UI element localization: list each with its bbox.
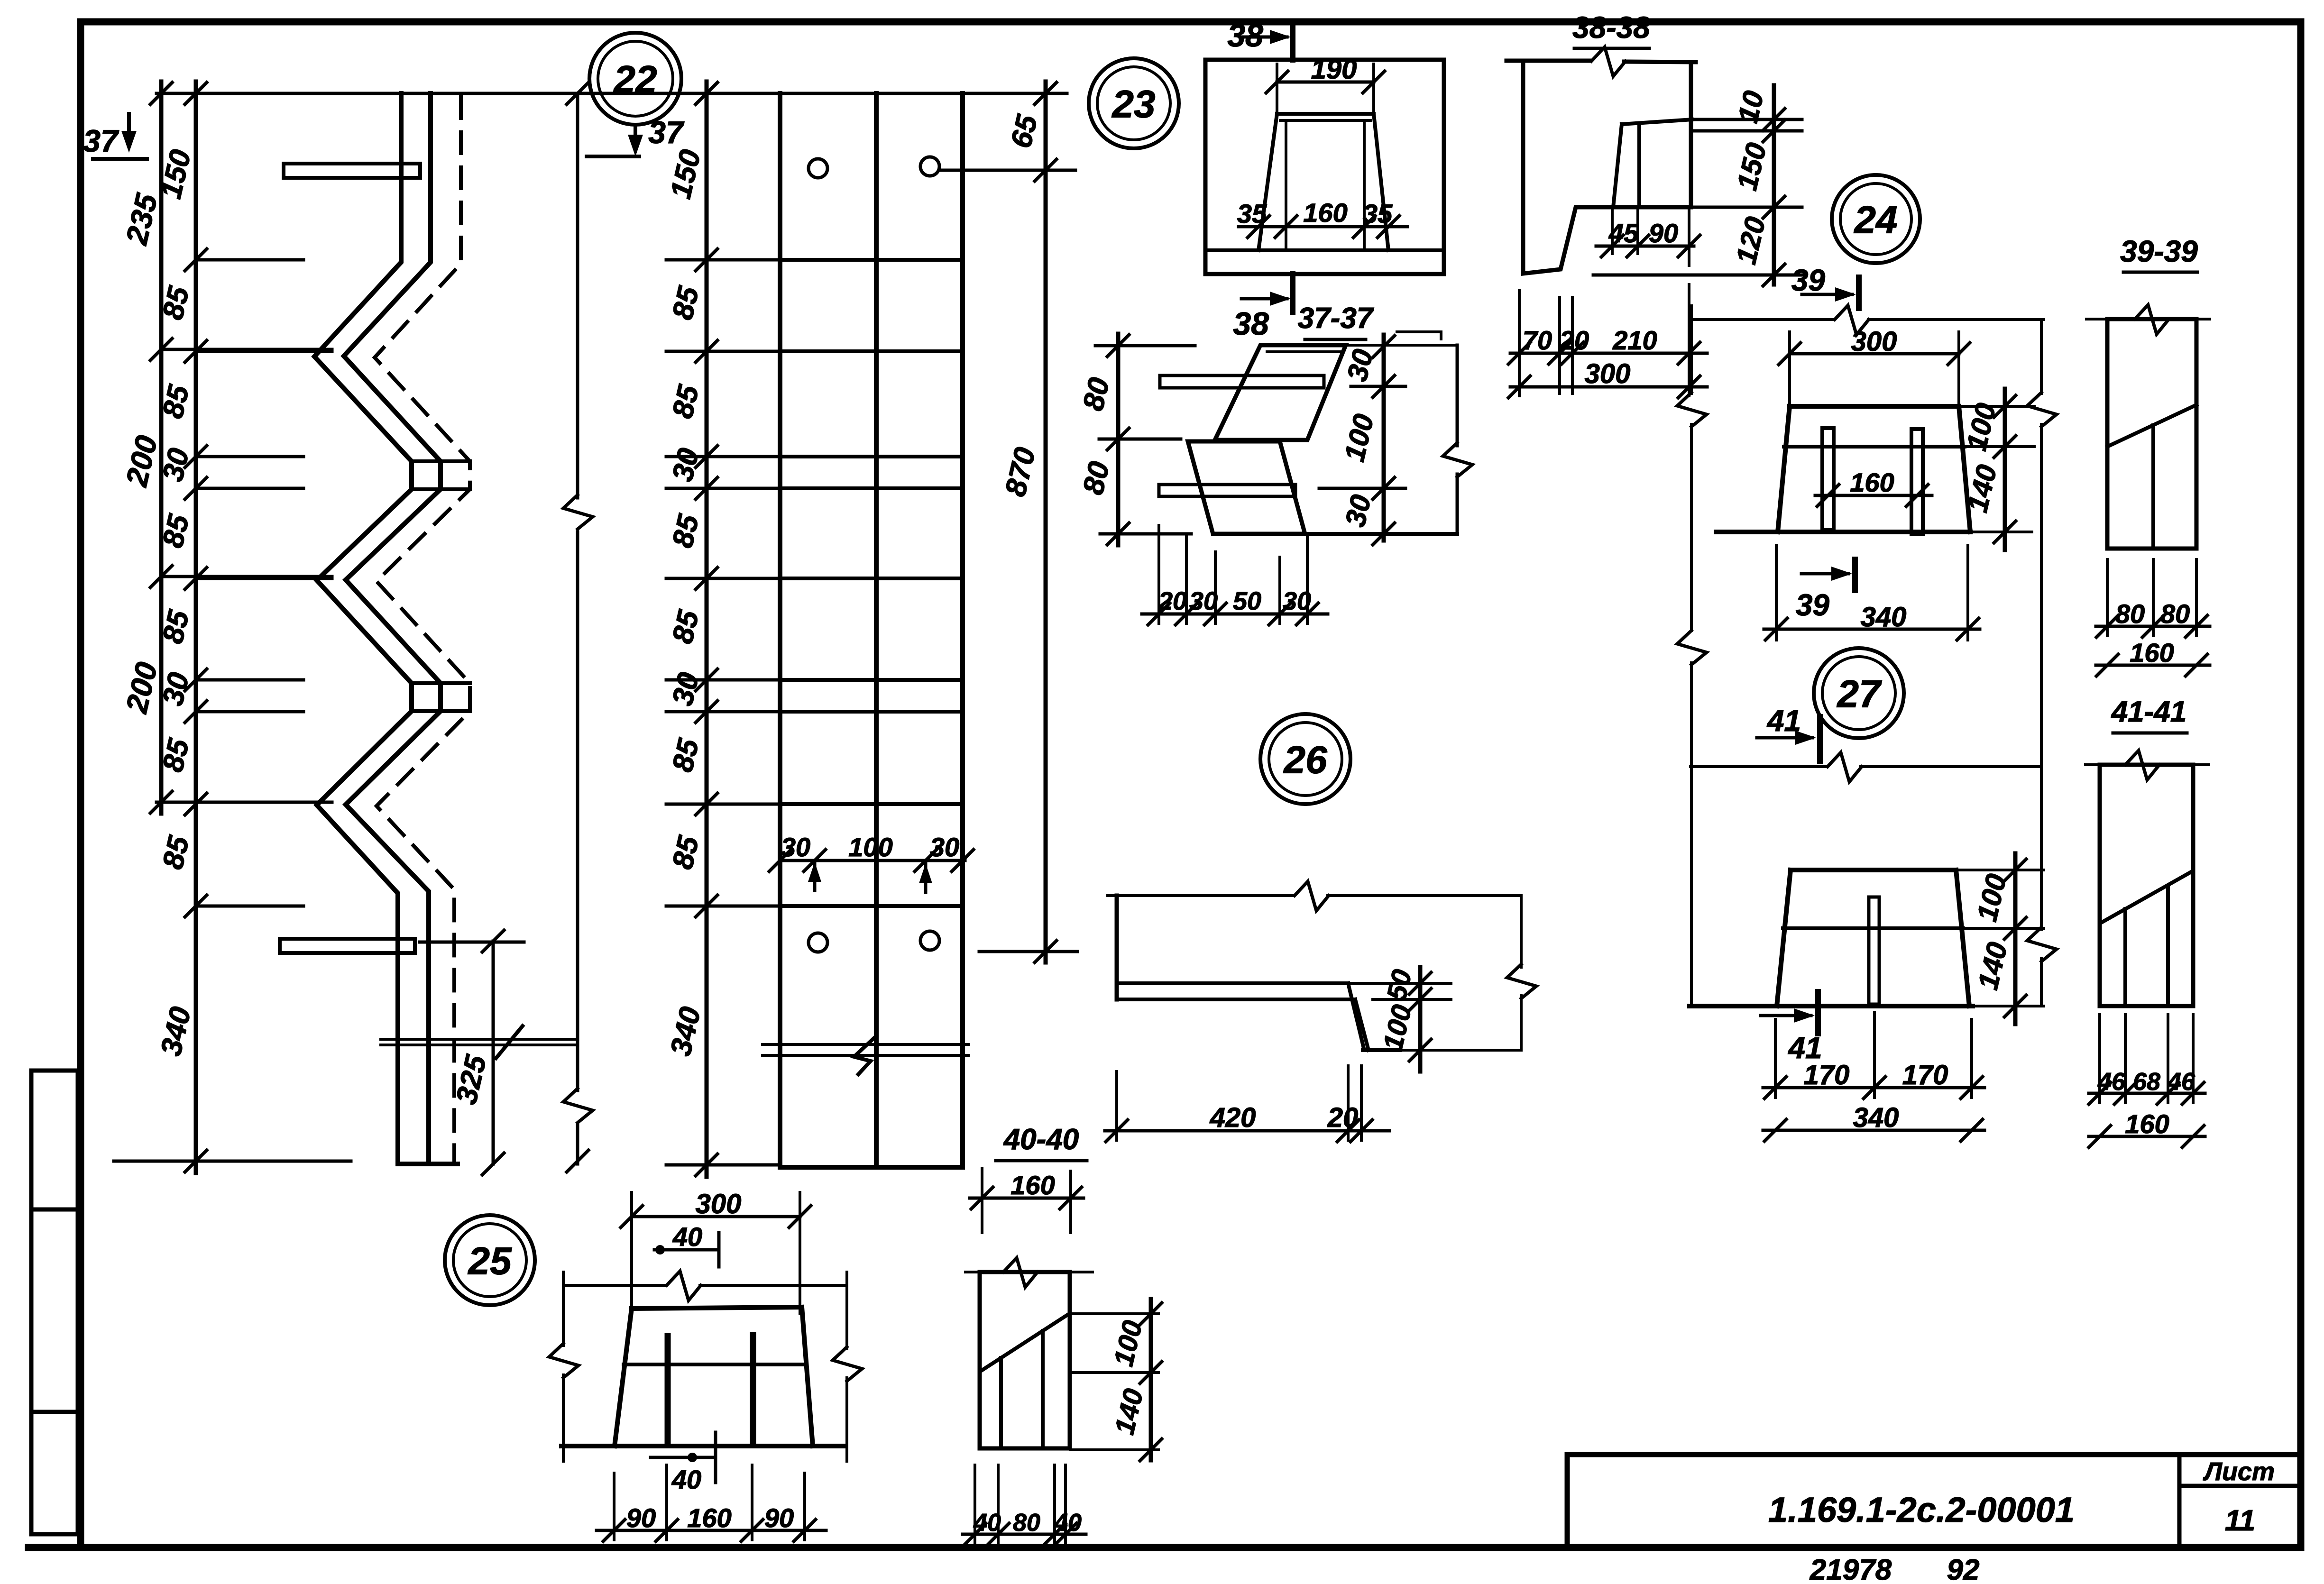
section cut mark 38 top xyxy=(1290,24,1295,60)
reference circle 22 xyxy=(589,33,681,125)
svg-text:35: 35 xyxy=(1363,199,1393,229)
svg-text:68: 68 xyxy=(2133,1068,2160,1096)
svg-text:92: 92 xyxy=(1947,1554,1980,1584)
svg-text:25: 25 xyxy=(467,1240,512,1283)
svg-text:90: 90 xyxy=(764,1503,794,1533)
lower holes in plank element xyxy=(808,933,827,952)
section 41-41 diagonal line xyxy=(2102,872,2191,922)
section 38-38 inner rib lines xyxy=(1613,124,1622,207)
reference circle 27 xyxy=(1814,648,1904,738)
svg-text:340: 340 xyxy=(1861,602,1907,632)
svg-text:11: 11 xyxy=(2225,1504,2255,1537)
detail 24 right chain 100 140 xyxy=(2003,389,2007,550)
detail 25 trapezoid outline xyxy=(632,1307,802,1309)
svg-text:22: 22 xyxy=(613,58,657,101)
svg-text:20: 20 xyxy=(1158,587,1187,615)
reference circle 24 xyxy=(1832,175,1920,263)
detail 26 top extension line with break xyxy=(1108,894,1294,897)
lower rung bar of element 1 xyxy=(280,939,415,953)
detail 24 inner line xyxy=(1784,445,1965,449)
svg-text:23: 23 xyxy=(1111,83,1155,126)
svg-text:38-38: 38-38 xyxy=(1572,10,1650,45)
detail 26 left edge xyxy=(1115,896,1119,999)
detail 27 trapezoid outline xyxy=(1791,868,1956,872)
section 37-37 upper step plate xyxy=(1215,345,1346,440)
svg-text:37-37: 37-37 xyxy=(1298,302,1374,335)
section 41-41 outline xyxy=(2100,765,2193,1006)
section 40-40 bottom chain 40 80 40 xyxy=(963,1533,1086,1536)
svg-text:40: 40 xyxy=(973,1509,1001,1537)
dimension chain B of bent element 150 85 85 30 85 85 30 85 85 340 xyxy=(194,82,198,1173)
detail 27 dimension 340 xyxy=(1763,1129,1984,1132)
detail 24 left extension line with breaks xyxy=(1690,306,1693,394)
svg-text:170: 170 xyxy=(1804,1060,1850,1090)
dimension 35 160 35 of detail 23 xyxy=(1239,225,1407,229)
svg-text:160: 160 xyxy=(2130,638,2174,668)
section 40-40 right chain 100 140 xyxy=(1149,1299,1153,1460)
dimension chain D 65 and 870 xyxy=(1044,82,1048,962)
dimension chain C of plank element 150 85 85 30 85 85 30 85 85 340 xyxy=(705,82,709,1177)
section 39-39 inner vertical xyxy=(2151,425,2155,549)
break lines across plank element xyxy=(762,1043,968,1046)
title block xyxy=(1567,1455,2301,1547)
bent plate element elevation (detail 22) front edge line xyxy=(314,93,412,1164)
section 39-39 bottom chain 80 80 xyxy=(2096,625,2210,628)
svg-text:46: 46 xyxy=(2097,1068,2126,1096)
detail 27 inner line xyxy=(1783,926,1963,930)
detail 27 right chain 100 140 xyxy=(2013,853,2018,1024)
svg-text:1.169.1-2с.2-00001: 1.169.1-2с.2-00001 xyxy=(1768,1490,2075,1529)
right extension line of element 1 with breaks xyxy=(576,93,579,498)
svg-text:40-40: 40-40 xyxy=(1003,1123,1079,1156)
detail 24 dimension 300 xyxy=(1790,352,1959,356)
plank element elevation (detail 23 reference) outline xyxy=(778,93,782,1167)
bent plate element hidden edge dashed line xyxy=(375,97,470,1163)
reference circle 25 xyxy=(445,1215,535,1305)
section 39-39 diagonal line xyxy=(2107,405,2196,447)
svg-text:160: 160 xyxy=(1850,467,1894,497)
svg-text:160: 160 xyxy=(1303,198,1347,228)
detail 24 anchor bars xyxy=(1822,428,1834,530)
section 37-37 right extension line with break xyxy=(1456,345,1459,446)
svg-text:100: 100 xyxy=(848,832,892,862)
section 39-39 dimension 160 xyxy=(2096,664,2210,667)
svg-text:210: 210 xyxy=(1612,325,1657,355)
detail 24 trapezoid outline xyxy=(1790,404,1959,409)
svg-text:39: 39 xyxy=(1791,263,1826,297)
svg-text:37: 37 xyxy=(648,115,685,150)
section 38-38 wall outline xyxy=(1506,59,1590,63)
detail 23 trapezoid rib inner edges xyxy=(1285,120,1287,250)
svg-text:160: 160 xyxy=(1010,1170,1055,1200)
svg-text:170: 170 xyxy=(1902,1060,1948,1090)
svg-text:80: 80 xyxy=(2115,599,2145,629)
section 40-40 inner verticals xyxy=(999,1358,1003,1448)
svg-text:20: 20 xyxy=(1559,325,1589,355)
detail 25 right extension line with break xyxy=(845,1272,848,1349)
svg-text:50: 50 xyxy=(1233,587,1261,615)
section 38-38 bottom chain 70 20 210 xyxy=(1510,352,1707,355)
svg-text:40: 40 xyxy=(672,1222,702,1252)
svg-text:26: 26 xyxy=(1283,739,1328,782)
bend step joint lines xyxy=(412,459,470,463)
upper holes in plank element xyxy=(808,159,827,178)
svg-text:39-39: 39-39 xyxy=(2120,234,2198,268)
svg-text:300: 300 xyxy=(1851,326,1897,357)
section 37-37 bottom chain 20 30 50 30 xyxy=(1142,613,1328,616)
section 39-39 outline xyxy=(2107,319,2196,549)
svg-text:46: 46 xyxy=(2167,1068,2195,1096)
svg-text:300: 300 xyxy=(1585,358,1631,389)
detail 25 left extension line with break xyxy=(562,1272,565,1346)
detail 24 top extension line with break xyxy=(1693,318,1834,321)
detail 26 right chain 50 100 xyxy=(1418,967,1423,1071)
svg-text:30: 30 xyxy=(781,832,810,862)
section 37-37 small hook extension xyxy=(1397,330,1441,333)
svg-text:27: 27 xyxy=(1836,673,1882,716)
svg-text:38: 38 xyxy=(1227,18,1263,54)
section 37-37 bottom edge line xyxy=(1213,532,1457,536)
detail 25 top extension line with break xyxy=(563,1284,666,1287)
detail 25 anchor bars xyxy=(665,1336,671,1445)
svg-text:30: 30 xyxy=(930,832,959,862)
detail 26 slab lines xyxy=(1117,981,1348,985)
section 38-38 right chain 10 150 120 xyxy=(1772,85,1776,284)
svg-text:39: 39 xyxy=(1796,588,1830,622)
svg-text:24: 24 xyxy=(1853,199,1897,242)
svg-text:40: 40 xyxy=(671,1465,701,1494)
svg-text:160: 160 xyxy=(687,1503,731,1533)
break lines across element 1 xyxy=(381,1038,576,1041)
leader arrow 37 below circle 22 xyxy=(634,126,637,148)
detail 23 trapezoid rib outer edges xyxy=(1277,112,1374,116)
svg-text:90: 90 xyxy=(1649,218,1678,248)
section 41-41 bottom chain 46 68 46 xyxy=(2089,1092,2205,1095)
section 38-38 dimension 45 90 xyxy=(1596,245,1694,248)
svg-text:41-41: 41-41 xyxy=(2111,696,2187,728)
svg-text:80: 80 xyxy=(2160,599,2190,629)
detail 25 dimension 40 leader xyxy=(654,1248,716,1252)
section 37-37 lower step plate xyxy=(1188,441,1305,534)
section 37-37 upper rung bar xyxy=(1160,375,1324,388)
dimension chain A totals 235 200 200 xyxy=(159,82,164,814)
dimension 325 of lower rung xyxy=(492,941,495,1164)
svg-text:35: 35 xyxy=(1237,199,1267,229)
detail 26 right extension line with break xyxy=(1520,896,1523,967)
bent plate element second edge line xyxy=(344,93,441,1164)
reference circle 26 xyxy=(1260,714,1350,804)
svg-text:21978: 21978 xyxy=(1810,1554,1892,1584)
section 37-37 top extension line xyxy=(1346,344,1457,347)
section 37-37 lower rung bar xyxy=(1159,485,1295,496)
dimension 190 of detail 23 xyxy=(1277,81,1374,84)
svg-text:420: 420 xyxy=(1210,1102,1256,1133)
section 37-37 left chain 80 80 xyxy=(1116,334,1121,545)
detail 25 dimension 300 xyxy=(632,1215,800,1218)
svg-text:80: 80 xyxy=(1013,1509,1040,1537)
svg-text:20: 20 xyxy=(1327,1102,1359,1133)
detail 25 inner line xyxy=(624,1363,806,1366)
section 38-38 dimension 300 xyxy=(1510,385,1707,389)
section 40-40 diagonal line xyxy=(981,1315,1067,1371)
svg-text:37: 37 xyxy=(83,123,119,158)
svg-text:Лист: Лист xyxy=(2203,1457,2275,1486)
svg-text:40: 40 xyxy=(1054,1509,1082,1537)
hole spacing dimension 30 100 30 xyxy=(780,859,965,862)
detail 27 anchor bar xyxy=(1869,897,1879,1004)
svg-text:190: 190 xyxy=(1311,54,1357,85)
detail 24 right extension line with breaks xyxy=(2040,320,2043,394)
section cut mark 38 bottom xyxy=(1290,274,1295,312)
detail 26 bottom chain 420 20 xyxy=(1105,1129,1389,1133)
detail 27 bottom chain 170 170 xyxy=(1763,1086,1984,1090)
svg-text:300: 300 xyxy=(696,1189,742,1219)
bottom edge of bent element xyxy=(398,1162,458,1166)
svg-text:30: 30 xyxy=(1189,587,1218,615)
upper rung bar of element 1 xyxy=(284,164,420,178)
svg-text:160: 160 xyxy=(2125,1109,2169,1139)
svg-text:340: 340 xyxy=(1853,1102,1899,1133)
detail 25 bottom 40 leader xyxy=(651,1456,714,1459)
form strip boxes bottom-left xyxy=(31,1071,78,1534)
detail 26 notch xyxy=(1348,983,1364,1048)
detail 23 plan outline rectangle xyxy=(1205,60,1444,274)
svg-text:90: 90 xyxy=(626,1503,656,1533)
detail 24 bottom chain 340 xyxy=(1764,628,1980,631)
plank element transverse joint lines xyxy=(780,258,963,262)
top extension line across elevations xyxy=(156,92,1067,95)
detail 24 dimension 160 between bars xyxy=(1815,494,1932,497)
detail 25 bottom chain 90 160 90 xyxy=(597,1529,826,1532)
section 41-41 inner verticals xyxy=(2123,909,2127,1006)
svg-text:38: 38 xyxy=(1233,306,1269,342)
section 37-37 right chain 30 100 30 xyxy=(1382,335,1386,540)
reference circle 23 xyxy=(1089,58,1179,148)
section 40-40 outline xyxy=(980,1272,1070,1448)
svg-text:70: 70 xyxy=(1523,325,1552,355)
detail 27 top extension line with break xyxy=(1690,765,1827,768)
section 41-41 dimension 160 xyxy=(2089,1135,2205,1138)
